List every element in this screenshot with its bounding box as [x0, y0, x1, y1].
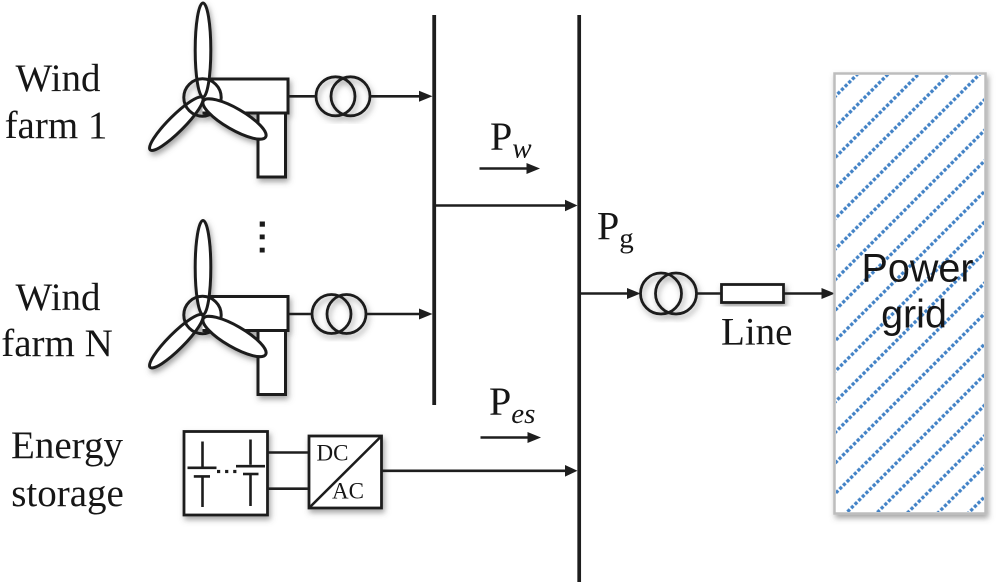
wire nacelle1 to transformer T1 — [288, 95, 317, 98]
wire T2 to bus 1 with arrow — [366, 313, 421, 316]
svg-text:Wind: Wind — [15, 57, 101, 100]
svg-text:Power: Power — [862, 247, 974, 291]
transformer T1 — [316, 77, 370, 116]
svg-text:AC: AC — [332, 479, 364, 504]
svg-text:DC: DC — [317, 441, 349, 466]
svg-text:storage: storage — [11, 472, 124, 515]
vertical dots — [260, 222, 265, 227]
blade lower-left — [144, 92, 208, 156]
DC/AC converter box — [309, 436, 382, 508]
wire bus2 to transformer T3 with arrow — [580, 292, 628, 295]
wind turbine 1 — [144, 3, 288, 177]
wire T1 to bus 1 with arrow — [370, 95, 421, 98]
line impedance rectangle — [722, 285, 784, 303]
hub — [184, 79, 221, 116]
svg-text:farm N: farm N — [1, 322, 113, 365]
wire T3 to line impedance — [697, 292, 722, 295]
nacelle — [203, 297, 289, 331]
tower — [258, 331, 286, 395]
svg-text:Energy: Energy — [11, 424, 123, 467]
arrow under P_es — [481, 436, 530, 439]
bus 2 (grid bus) — [577, 15, 581, 582]
wire bus1 to bus2 with arrow — [434, 204, 566, 207]
wires battery to converter — [268, 451, 310, 454]
dots between cells — [217, 470, 220, 473]
battery box (energy storage) — [184, 432, 268, 516]
power grid box — [835, 74, 986, 514]
bus 1 (wind collector bus) — [432, 15, 436, 405]
tower — [258, 113, 286, 177]
blade lower-right — [198, 92, 271, 146]
blade up — [195, 221, 211, 315]
wire line to power grid with arrow — [784, 292, 823, 295]
blade lower-left — [144, 309, 208, 373]
svg-text:Wind: Wind — [15, 276, 101, 319]
cell 1 — [201, 442, 204, 467]
svg-text:grid: grid — [881, 293, 947, 337]
hub — [184, 296, 221, 333]
transformer T2 — [312, 295, 366, 334]
wire nacelle2 to transformer T2 — [288, 313, 313, 316]
arrow under P_w — [480, 167, 529, 170]
blade up — [195, 3, 211, 97]
wire converter to bus 2 with arrow — [382, 469, 567, 472]
blade lower-right — [198, 309, 271, 363]
nacelle — [203, 79, 289, 113]
wind turbine 2 — [144, 221, 288, 395]
svg-text:Line: Line — [721, 311, 792, 354]
cell 2 — [249, 440, 252, 465]
transformer T3 — [641, 273, 697, 314]
svg-text:farm 1: farm 1 — [5, 104, 108, 147]
